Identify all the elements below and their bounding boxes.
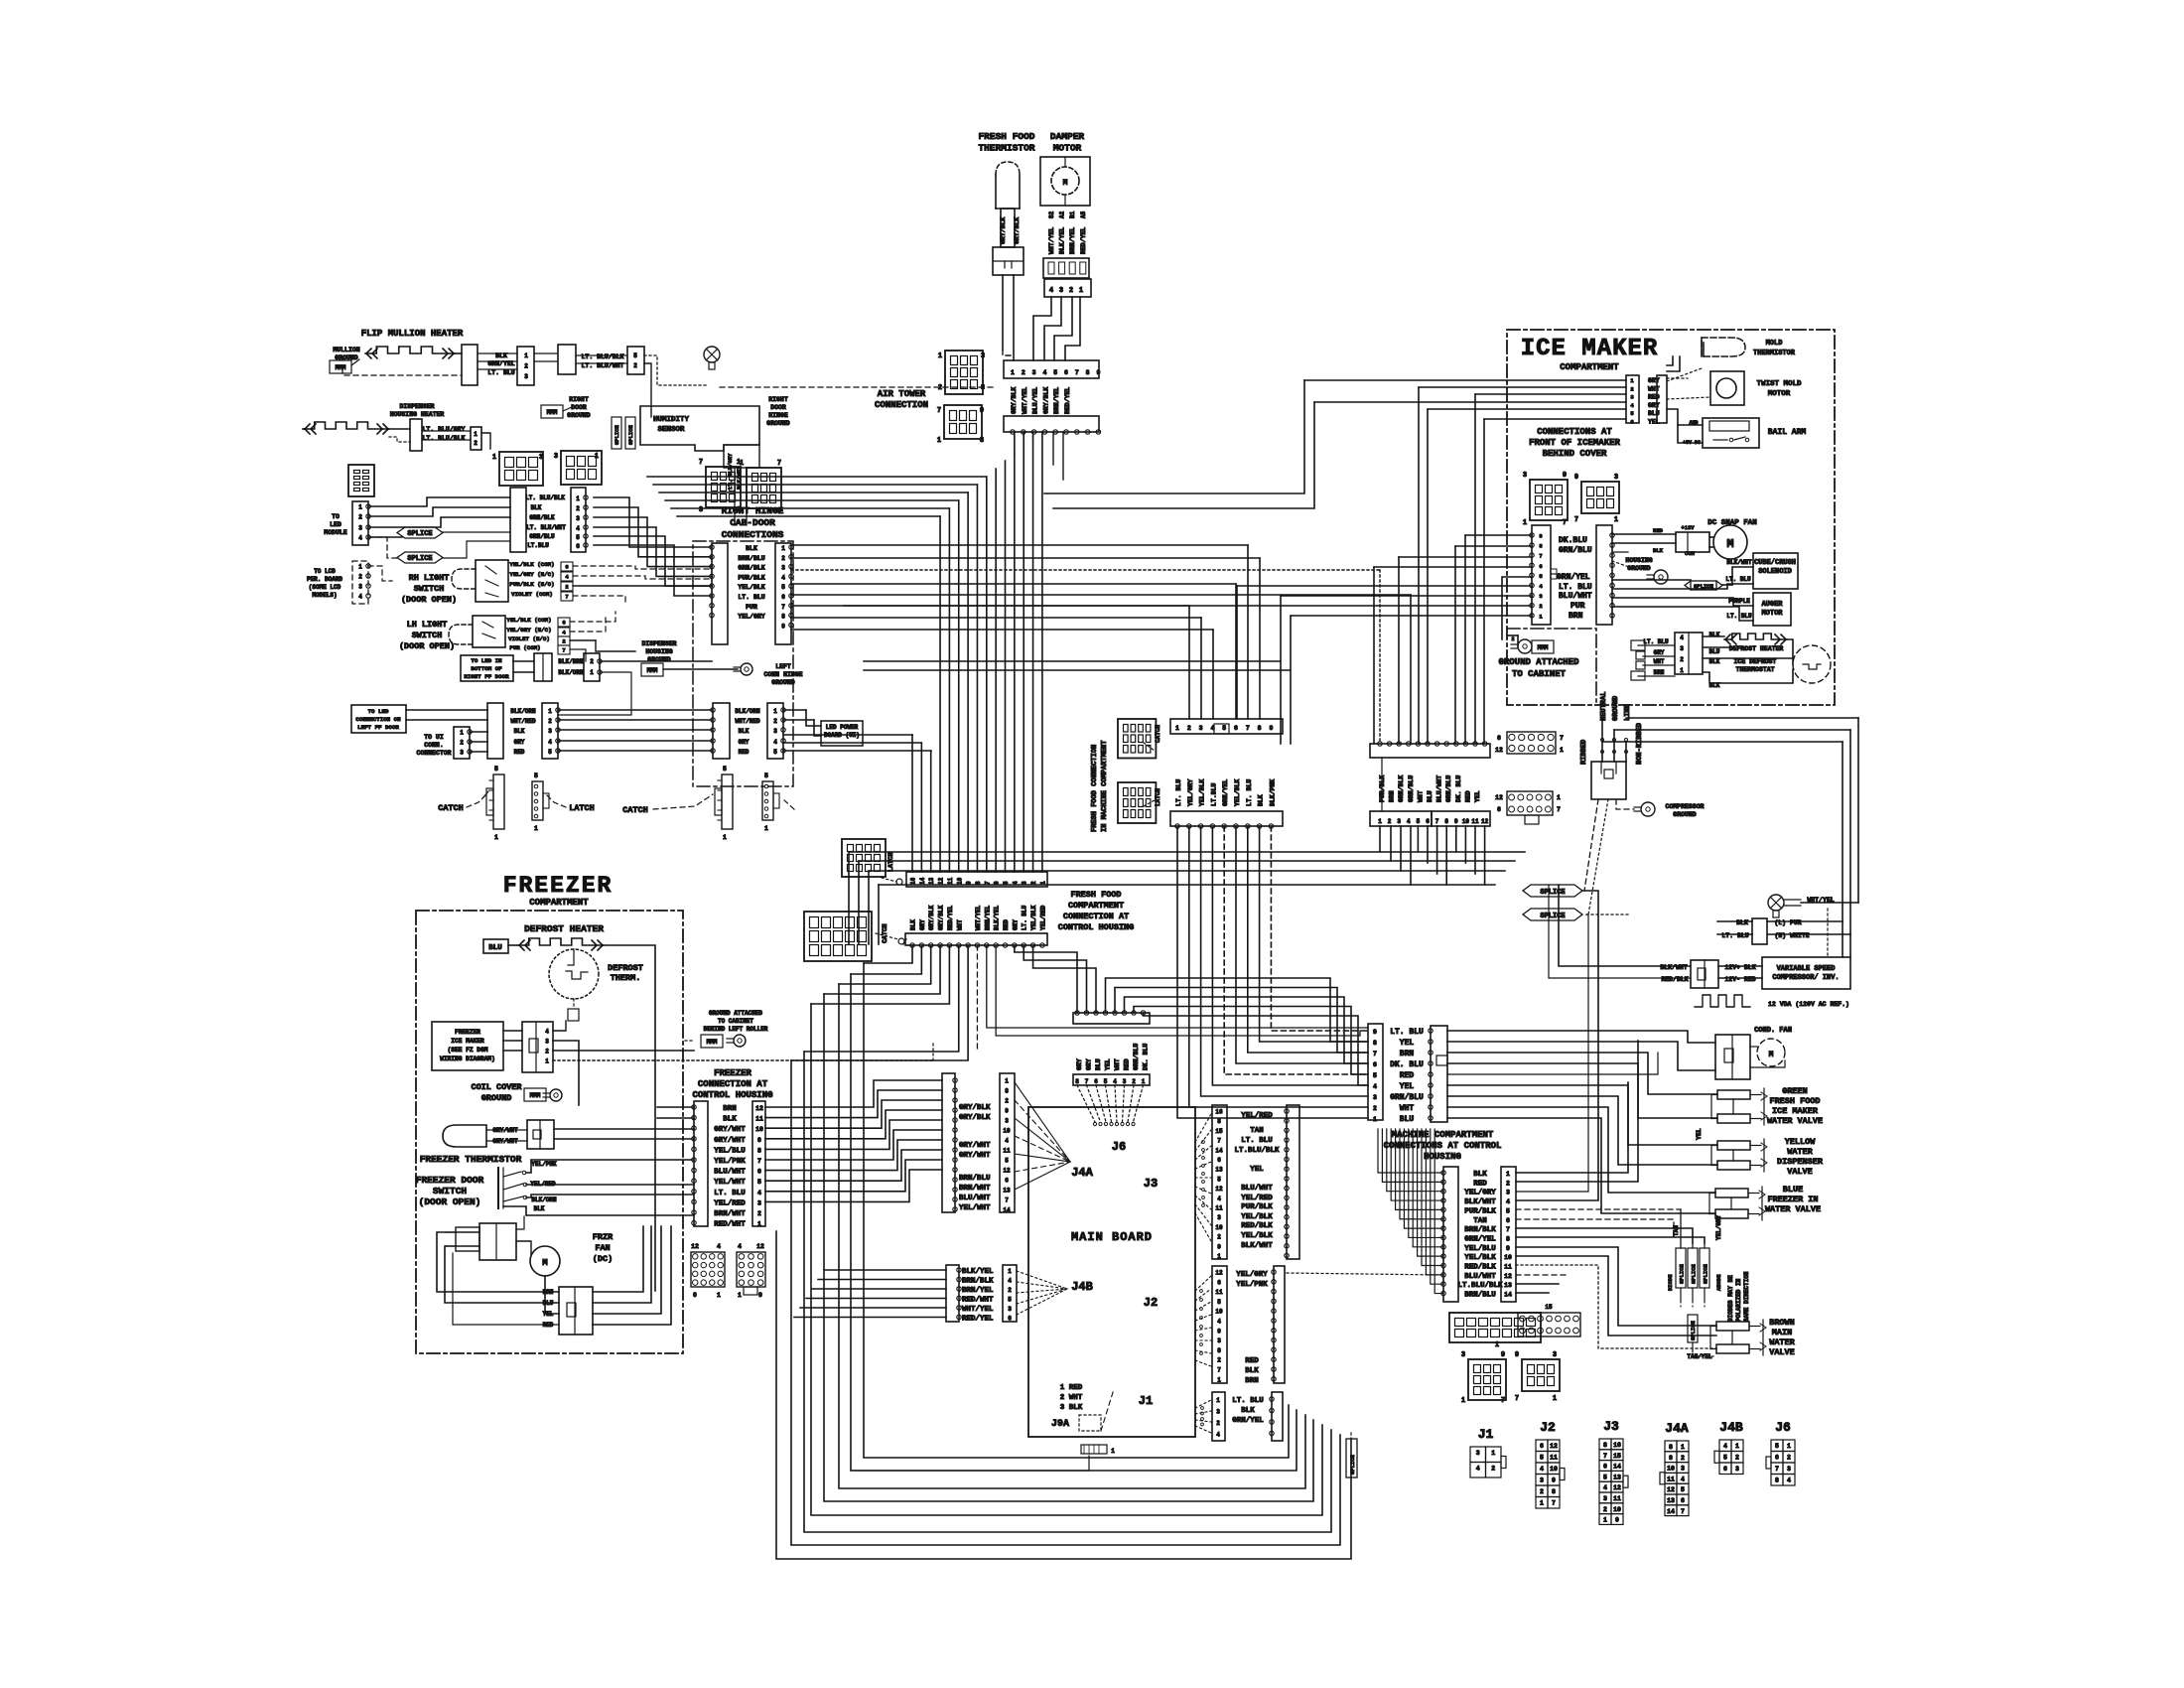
svg-text:GROUND: GROUND [481, 1093, 512, 1103]
svg-text:3: 3 [1373, 1094, 1377, 1101]
svg-text:6: 6 [1775, 1455, 1779, 1462]
svg-text:YEL: YEL [1400, 1082, 1415, 1091]
svg-text:(DOOR OPEN): (DOOR OPEN) [401, 595, 457, 605]
svg-text:BROWN: BROWN [1769, 1318, 1795, 1328]
svg-text:1: 1 [524, 352, 528, 359]
svg-text:MACHINE COMPARTMENT: MACHINE COMPARTMENT [1392, 1130, 1494, 1140]
svg-text:2: 2 [1540, 1488, 1544, 1495]
svg-text:12V+ BLK: 12V+ BLK [1724, 964, 1755, 971]
svg-text:J4A: J4A [1071, 1166, 1093, 1180]
svg-text:BLK: BLK [534, 1205, 545, 1212]
svg-text:PUR (COM): PUR (COM) [509, 644, 540, 651]
svg-text:1: 1 [1079, 287, 1083, 295]
svg-text:2: 2 [545, 1049, 549, 1055]
svg-text:CONNECTIONS AT CONTROL: CONNECTIONS AT CONTROL [1384, 1141, 1502, 1151]
svg-text:7: 7 [1557, 806, 1561, 813]
svg-text:3: 3 [1217, 1337, 1221, 1344]
svg-text:1: 1 [1557, 794, 1561, 801]
svg-text:3: 3 [548, 728, 552, 735]
svg-text:WHT: WHT [1400, 1104, 1415, 1113]
svg-text:3: 3 [1523, 472, 1527, 480]
svg-text:BRN/BLK: BRN/BLK [962, 1278, 994, 1286]
svg-text:YEL/GRY: YEL/GRY [738, 614, 764, 621]
svg-text:HINGE: HINGE [768, 412, 788, 419]
svg-text:YEL/BLU: YEL/BLU [1464, 1245, 1496, 1253]
svg-text:SPLICE: SPLICE [1540, 889, 1565, 897]
svg-text:5: 5 [1630, 410, 1634, 417]
svg-text:YEL/GRY: YEL/GRY [1715, 1214, 1722, 1240]
svg-text:4: 4 [1476, 1466, 1480, 1473]
svg-text:BLU/WHT: BLU/WHT [1436, 775, 1443, 802]
svg-text:WATER VALVE: WATER VALVE [1767, 1116, 1823, 1126]
svg-text:3: 3 [1506, 1190, 1510, 1196]
svg-text:YEL/RED: YEL/RED [714, 1199, 746, 1207]
svg-text:MMM: MMM [336, 364, 346, 371]
svg-text:VARIABLE SPEED: VARIABLE SPEED [1777, 965, 1836, 973]
svg-text:LEFT FF DOOR: LEFT FF DOOR [357, 724, 399, 731]
svg-text:CONNECTION ON: CONNECTION ON [355, 716, 401, 723]
svg-text:LT. BLU: LT. BLU [738, 594, 764, 601]
svg-text:2: 2 [633, 362, 637, 369]
svg-text:4: 4 [358, 594, 362, 601]
svg-text:LT. BLU: LT. BLU [1390, 1028, 1424, 1037]
svg-text:2: 2 [773, 718, 777, 725]
svg-text:PER. BOARD: PER. BOARD [307, 576, 342, 583]
svg-text:2: 2 [358, 514, 362, 521]
svg-text:BRN: BRN [1400, 1050, 1415, 1058]
svg-text:RIGHT: RIGHT [768, 396, 788, 403]
svg-text:TO LED: TO LED [368, 708, 389, 715]
svg-text:BLK/YEL: BLK/YEL [1059, 227, 1066, 254]
svg-text:7: 7 [1775, 1466, 1779, 1473]
svg-text:M: M [1769, 1051, 1774, 1059]
svg-text:GRY: GRY [1654, 649, 1665, 656]
svg-text:7: 7 [937, 407, 941, 415]
svg-text:6: 6 [1497, 806, 1501, 813]
svg-text:ICE MAKER: ICE MAKER [451, 1038, 484, 1045]
svg-text:7: 7 [1574, 516, 1578, 524]
svg-text:10: 10 [1215, 1309, 1223, 1316]
svg-text:5: 5 [494, 766, 498, 773]
svg-text:BEHIND LEFT ROLLER: BEHIND LEFT ROLLER [704, 1026, 768, 1033]
svg-text:RH LIGHT: RH LIGHT [409, 573, 450, 583]
svg-text:3: 3 [460, 750, 464, 757]
svg-text:LT. BLU: LT. BLU [1241, 1137, 1273, 1145]
svg-text:BLK: BLK [1473, 1171, 1487, 1179]
svg-text:RED: RED [1464, 790, 1471, 802]
svg-text:GRN/BLK: GRN/BLK [529, 514, 555, 521]
svg-text:8: 8 [1669, 1444, 1673, 1451]
svg-text:11: 11 [755, 1116, 763, 1123]
svg-text:FREEZER: FREEZER [503, 873, 614, 899]
svg-text:BLK/WHT: BLK/WHT [1660, 964, 1687, 971]
svg-text:1: 1 [1735, 1443, 1739, 1450]
svg-text:1: 1 [1491, 1450, 1495, 1457]
svg-text:YEL/BLK: YEL/BLK [1199, 779, 1206, 806]
svg-text:NEUTRAL: NEUTRAL [1600, 692, 1608, 721]
svg-text:YEL: YEL [1400, 1039, 1415, 1048]
svg-text:10: 10 [1504, 1254, 1512, 1261]
svg-text:LT. BLU/BLK: LT. BLU/BLK [423, 435, 466, 442]
svg-text:6: 6 [757, 1169, 761, 1176]
svg-text:1: 1 [590, 669, 594, 676]
svg-text:13: 13 [1667, 1497, 1675, 1504]
svg-text:3: 3 [1032, 369, 1036, 376]
svg-text:1: 1 [740, 460, 744, 468]
svg-text:LT. BLU: LT. BLU [1559, 583, 1592, 592]
svg-text:7: 7 [1506, 1226, 1510, 1233]
svg-text:PUR: PUR [746, 604, 757, 611]
svg-text:1: 1 [1495, 1341, 1499, 1349]
svg-text:PUR/BLK: PUR/BLK [1241, 1203, 1273, 1211]
svg-text:BLK/YEL: BLK/YEL [962, 1268, 994, 1276]
svg-text:BLK: BLK [910, 919, 917, 930]
svg-text:BEHIND COVER: BEHIND COVER [1543, 449, 1607, 459]
svg-text:10: 10 [956, 877, 963, 885]
svg-text:8: 8 [1217, 1118, 1221, 1125]
svg-text:4: 4 [1539, 583, 1543, 590]
svg-text:6: 6 [1094, 1078, 1098, 1085]
svg-text:1: 1 [1506, 1171, 1510, 1178]
svg-text:COMPARTMENT: COMPARTMENT [529, 898, 589, 908]
svg-text:1: 1 [494, 834, 498, 841]
svg-text:S2: S2 [1048, 211, 1055, 218]
svg-text:6: 6 [1497, 735, 1501, 742]
svg-text:SPLICE: SPLICE [1691, 1263, 1698, 1284]
svg-text:RED/WHT: RED/WHT [962, 1297, 994, 1305]
svg-text:2: 2 [590, 658, 594, 665]
svg-text:13: 13 [1215, 1167, 1223, 1174]
svg-text:2: 2 [1491, 1466, 1495, 1473]
svg-text:1: 1 [1142, 1078, 1146, 1085]
svg-text:BRN/YEL: BRN/YEL [1069, 227, 1076, 254]
svg-text:11: 11 [1471, 818, 1479, 825]
svg-text:RED: RED [1648, 394, 1660, 401]
svg-text:7: 7 [777, 460, 781, 468]
svg-text:1: 1 [576, 495, 580, 502]
svg-text:3: 3 [554, 453, 558, 461]
svg-text:BRN: BRN [723, 1105, 737, 1113]
svg-text:YEL/BLK (COM): YEL/BLK (COM) [506, 617, 551, 624]
svg-text:YEL/BLK: YEL/BLK [1464, 1254, 1496, 1262]
svg-text:M: M [1063, 179, 1068, 188]
svg-text:BRN/BLU: BRN/BLU [959, 1175, 991, 1183]
svg-text:SPLICE: SPLICE [407, 555, 432, 563]
svg-text:GRN/BLU: GRN/BLU [1408, 775, 1415, 802]
svg-text:FRZR: FRZR [593, 1232, 614, 1242]
svg-text:GROUND: GROUND [1673, 811, 1697, 818]
svg-text:3: 3 [1397, 818, 1401, 825]
svg-text:WIRING DIAGRAM): WIRING DIAGRAM) [440, 1055, 495, 1062]
svg-text:1: 1 [1373, 1116, 1377, 1123]
svg-text:GRY: GRY [1076, 1058, 1083, 1070]
svg-text:1: 1 [764, 825, 768, 832]
svg-text:YELLOW: YELLOW [1785, 1137, 1817, 1147]
svg-text:7: 7 [781, 604, 785, 611]
svg-text:GRY/BLK: GRY/BLK [1000, 217, 1007, 244]
svg-text:FRESH FOOD: FRESH FOOD [1769, 1096, 1820, 1106]
svg-text:2: 2 [1511, 636, 1514, 642]
svg-text:12: 12 [1003, 1168, 1011, 1175]
svg-text:4: 4 [717, 1243, 721, 1250]
svg-text:6: 6 [1603, 1464, 1607, 1471]
svg-text:6: 6 [562, 620, 565, 627]
svg-text:DOOR: DOOR [770, 404, 786, 411]
svg-text:LT. BLU: LT. BLU [1022, 905, 1028, 930]
svg-text:7: 7 [1501, 1397, 1505, 1405]
svg-text:BLK/WHT: BLK/WHT [1241, 1242, 1273, 1250]
svg-text:2: 2 [562, 638, 565, 645]
svg-text:RED/YEL: RED/YEL [1064, 387, 1071, 414]
svg-text:SPLICE: SPLICE [627, 424, 634, 445]
svg-text:9: 9 [1269, 725, 1273, 732]
svg-text:GRY/WHT: GRY/WHT [714, 1126, 746, 1134]
svg-text:1: 1 [474, 431, 478, 438]
svg-text:2: 2 [1787, 1455, 1791, 1462]
svg-text:4: 4 [1049, 287, 1053, 295]
svg-text:TO LCD: TO LCD [314, 568, 336, 575]
svg-text:CATCH: CATCH [1155, 725, 1161, 743]
svg-text:4: 4 [1630, 402, 1634, 409]
svg-text:GRY: GRY [1012, 919, 1019, 930]
svg-text:RED/BLK: RED/BLK [1661, 976, 1688, 983]
svg-text:RED: RED [514, 749, 525, 756]
svg-text:TO CABINET: TO CABINET [1512, 669, 1567, 679]
svg-text:CONNECTIONS: CONNECTIONS [722, 529, 784, 540]
svg-text:7: 7 [1515, 1395, 1519, 1403]
svg-text:11: 11 [947, 877, 954, 885]
svg-text:GRN/YEL: GRN/YEL [1464, 1235, 1496, 1243]
svg-text:8: 8 [1075, 1078, 1079, 1085]
svg-text:1: 1 [534, 825, 538, 832]
svg-text:WHT/RED: WHT/RED [510, 718, 536, 725]
svg-text:7: 7 [1005, 1197, 1009, 1204]
svg-text:GRY/BLK: GRY/BLK [928, 905, 935, 930]
svg-text:4: 4 [1506, 1198, 1510, 1205]
svg-text:14: 14 [1613, 1464, 1621, 1471]
svg-text:LT.BLU: LT.BLU [1210, 782, 1217, 806]
svg-text:FREEZER: FREEZER [455, 1029, 480, 1036]
svg-text:6: 6 [1723, 1466, 1727, 1473]
svg-text:(L) PUR: (L) PUR [1774, 919, 1801, 926]
svg-text:+12V: +12V [1681, 524, 1695, 531]
svg-text:VIOLET (COM): VIOLET (COM) [511, 591, 553, 598]
svg-text:7: 7 [1085, 1078, 1089, 1085]
svg-text:MMM: MMM [547, 409, 558, 416]
svg-text:BAIL ARM: BAIL ARM [1768, 428, 1807, 437]
svg-text:5: 5 [1723, 1455, 1727, 1462]
svg-text:9: 9 [758, 1292, 762, 1299]
svg-text:(DC): (DC) [593, 1254, 613, 1264]
svg-text:5: 5 [1506, 1207, 1510, 1214]
svg-text:1: 1 [1614, 516, 1618, 524]
svg-text:15: 15 [1545, 1304, 1553, 1311]
svg-text:BLU: BLU [1709, 648, 1720, 655]
svg-text:GRY/BLK: GRY/BLK [1014, 217, 1021, 244]
svg-text:9: 9 [1217, 1243, 1221, 1250]
svg-text:DIODE: DIODE [1667, 1274, 1674, 1291]
svg-text:LT. BLU: LT. BLU [1232, 1397, 1264, 1405]
svg-text:YEL: YEL [1250, 1166, 1264, 1174]
svg-text:CONN.: CONN. [424, 742, 444, 749]
svg-text:LT. BLU: LT. BLU [714, 1190, 746, 1197]
svg-text:3: 3 [1614, 474, 1618, 482]
svg-text:BRN/WHT: BRN/WHT [714, 1210, 746, 1218]
svg-text:WHT/YEL: WHT/YEL [975, 905, 982, 930]
svg-text:ICE MAKER: ICE MAKER [1772, 1106, 1819, 1116]
svg-text:1: 1 [1787, 1443, 1791, 1450]
svg-text:FAN: FAN [595, 1243, 610, 1253]
svg-text:6: 6 [1540, 1443, 1544, 1450]
svg-text:GROUND: GROUND [567, 412, 591, 419]
svg-text:BLK: BLK [739, 728, 750, 735]
svg-text:13: 13 [1613, 1474, 1621, 1480]
svg-text:6: 6 [1539, 563, 1542, 570]
svg-text:J4B: J4B [1071, 1280, 1093, 1294]
svg-text:10: 10 [1003, 1128, 1011, 1135]
svg-text:BRN: BRN [1245, 1377, 1259, 1385]
svg-text:5: 5 [723, 766, 727, 773]
svg-text:GRN/BLK: GRN/BLK [1398, 775, 1405, 802]
svg-text:LATCH: LATCH [1155, 788, 1161, 806]
svg-text:9: 9 [1669, 1455, 1673, 1462]
svg-text:3: 3 [358, 584, 362, 591]
svg-text:4: 4 [1407, 818, 1411, 825]
svg-text:RED: RED [1473, 1180, 1487, 1188]
svg-text:LT.BLU/BLK: LT.BLU/BLK [1234, 1147, 1280, 1155]
svg-text:DK. BLU: DK. BLU [1390, 1060, 1424, 1069]
svg-text:1: 1 [1540, 1500, 1544, 1507]
svg-text:GRY: GRY [1648, 377, 1660, 384]
svg-text:1: 1 [1461, 1397, 1465, 1405]
svg-text:14: 14 [1504, 1292, 1512, 1299]
svg-text:12 VDA (120V AC REF.): 12 VDA (120V AC REF.) [1768, 1001, 1849, 1008]
svg-text:PUR/BLK: PUR/BLK [738, 574, 764, 581]
svg-text:11: 11 [1504, 1264, 1512, 1271]
svg-text:14: 14 [1667, 1508, 1675, 1515]
svg-text:1: 1 [938, 352, 942, 360]
svg-text:DK. BLU: DK. BLU [1143, 1044, 1150, 1070]
svg-text:LED POWER: LED POWER [826, 724, 859, 731]
svg-text:J3: J3 [1603, 1419, 1619, 1434]
svg-text:13: 13 [1003, 1188, 1011, 1195]
svg-text:FRESH FOOD: FRESH FOOD [1070, 890, 1121, 900]
svg-text:1: 1 [1523, 519, 1527, 527]
svg-text:9: 9 [1552, 1477, 1556, 1484]
svg-text:BLK: BLK [1245, 1367, 1259, 1375]
svg-text:4: 4 [1540, 1466, 1544, 1473]
svg-text:4: 4 [738, 1243, 742, 1250]
svg-text:8: 8 [757, 1147, 761, 1154]
svg-text:2: 2 [938, 384, 942, 392]
svg-text:7: 7 [1681, 1508, 1685, 1515]
svg-text:3: 3 [1540, 1477, 1544, 1484]
svg-text:GROUND: GROUND [771, 679, 795, 686]
svg-text:11: 11 [1215, 1289, 1223, 1296]
svg-text:YEL/GRY: YEL/GRY [1187, 779, 1194, 806]
svg-text:4: 4 [1373, 1083, 1377, 1090]
svg-text:1: 1 [1175, 725, 1179, 732]
svg-text:COMPRESSOR: COMPRESSOR [1665, 803, 1704, 810]
svg-text:BRN/BLU: BRN/BLU [738, 555, 764, 562]
svg-text:4: 4 [358, 535, 362, 542]
svg-text:MMM: MMM [647, 667, 658, 674]
svg-text:6: 6 [1217, 1157, 1221, 1164]
svg-text:LT. BLU/BLK: LT. BLU/BLK [525, 494, 565, 501]
svg-text:BOARD (UI): BOARD (UI) [824, 732, 860, 739]
svg-text:9: 9 [1563, 472, 1567, 480]
svg-text:BLK: BLK [1258, 794, 1265, 806]
svg-text:WHT: WHT [1114, 1058, 1121, 1070]
svg-text:MMM: MMM [530, 1092, 541, 1099]
svg-text:3: 3 [1217, 1214, 1221, 1221]
svg-text:1: 1 [1553, 1395, 1557, 1403]
svg-text:DOOR: DOOR [571, 404, 587, 411]
svg-text:1: 1 [738, 1292, 742, 1299]
svg-text:COMPARTMENT: COMPARTMENT [1068, 901, 1124, 911]
svg-text:12: 12 [1550, 1443, 1558, 1450]
svg-text:B1: B1 [1069, 211, 1076, 218]
svg-text:3: 3 [1680, 645, 1684, 652]
svg-text:7: 7 [1246, 725, 1250, 732]
svg-text:WATER: WATER [1787, 1147, 1813, 1157]
svg-text:SPLICE: SPLICE [1690, 1320, 1697, 1340]
svg-text:J2: J2 [1144, 1296, 1158, 1310]
svg-text:16: 16 [1215, 1109, 1223, 1116]
svg-text:12: 12 [755, 1105, 763, 1112]
svg-text:BLK: BLK [1653, 547, 1664, 554]
svg-text:CATCH: CATCH [882, 923, 888, 943]
svg-text:LH LIGHT: LH LIGHT [407, 620, 448, 630]
svg-text:3: 3 [781, 565, 785, 572]
svg-text:7: 7 [757, 1158, 761, 1165]
svg-text:YEL/BLK: YEL/BLK [1030, 905, 1037, 930]
svg-text:YEL/BLU: YEL/BLU [714, 1147, 746, 1155]
svg-text:4: 4 [1680, 634, 1684, 641]
svg-text:GRN/BLU: GRN/BLU [529, 533, 555, 540]
svg-text:4: 4 [1216, 1432, 1220, 1439]
svg-text:3: 3 [740, 507, 744, 515]
svg-text:3: 3 [1216, 1409, 1220, 1416]
svg-text:DK.BLU: DK.BLU [1559, 536, 1587, 545]
svg-text:13: 13 [928, 877, 935, 885]
svg-text:M: M [542, 1258, 547, 1268]
svg-text:LT.BLU: LT.BLU [527, 542, 549, 549]
svg-text:10: 10 [1550, 1466, 1558, 1473]
svg-text:1: 1 [545, 1058, 549, 1065]
svg-text:2: 2 [1388, 818, 1392, 825]
svg-text:ANODE: ANODE [1715, 1274, 1722, 1291]
svg-text:4: 4 [757, 1190, 761, 1196]
svg-text:1: 1 [358, 504, 362, 511]
svg-text:3: 3 [1199, 725, 1203, 732]
svg-text:BRN/YEL: BRN/YEL [962, 1287, 994, 1295]
svg-text:1: 1 [1111, 1448, 1115, 1455]
svg-text:HOUSING: HOUSING [645, 648, 672, 655]
svg-text:BLU: BLU [1095, 1058, 1102, 1070]
svg-text:TO CABINET: TO CABINET [718, 1018, 753, 1025]
svg-text:2: 2 [781, 555, 785, 562]
svg-text:LT. BLU: LT. BLU [1175, 779, 1182, 806]
svg-text:GRY/WHT: GRY/WHT [959, 1152, 991, 1160]
svg-text:BRN/BLU: BRN/BLU [1464, 1292, 1496, 1300]
svg-text:LEFT: LEFT [775, 663, 791, 670]
svg-text:5: 5 [1539, 573, 1543, 580]
svg-text:DK. BLU: DK. BLU [1455, 775, 1462, 802]
svg-text:5: 5 [633, 352, 637, 359]
svg-text:(SOME LCD: (SOME LCD [309, 584, 341, 591]
svg-text:5: 5 [1005, 1158, 1009, 1165]
